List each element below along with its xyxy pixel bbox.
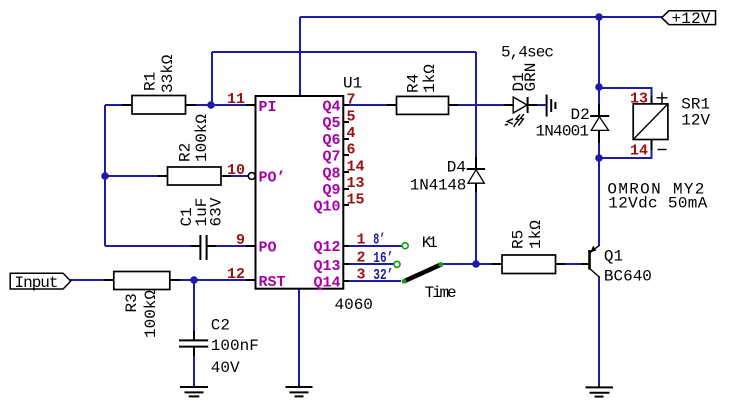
C2 value label bbox=[211, 317, 259, 378]
wire left rail bbox=[104, 105, 106, 246]
svg-text:Q14: Q14 bbox=[313, 274, 340, 291]
R4 value label bbox=[405, 64, 440, 93]
svg-text:13: 13 bbox=[630, 90, 648, 107]
wire Q14 stub bbox=[343, 280, 401, 282]
capacitor C1 bbox=[191, 235, 216, 260]
svg-text:PO: PO bbox=[259, 239, 277, 256]
R3 value label bbox=[123, 290, 160, 338]
svg-text:R3: R3 bbox=[123, 293, 141, 312]
svg-text:Input: Input bbox=[15, 274, 59, 292]
svg-text:Q12: Q12 bbox=[313, 239, 340, 256]
svg-text:6: 6 bbox=[347, 142, 356, 159]
wire R2 row to pin 10 bbox=[105, 175, 248, 177]
svg-text:Q1: Q1 bbox=[604, 248, 623, 266]
svg-text:12V: 12V bbox=[681, 112, 710, 130]
svg-text:100nF: 100nF bbox=[211, 337, 259, 355]
svg-text:4: 4 bbox=[347, 125, 356, 142]
ground under Q1 bbox=[586, 387, 614, 396]
svg-text:GRN: GRN bbox=[522, 63, 540, 92]
wire C2 top bbox=[193, 280, 195, 340]
R5 value label bbox=[510, 220, 546, 249]
svg-text:PO’: PO’ bbox=[259, 170, 286, 187]
junction node RST/C2 bbox=[190, 276, 198, 284]
svg-text:1kΩ: 1kΩ bbox=[527, 220, 545, 249]
relay coil SR1 bbox=[633, 93, 668, 151]
diode D4 bbox=[467, 157, 485, 192]
wire Q12 stub bbox=[343, 245, 402, 247]
svg-text:R1: R1 bbox=[142, 72, 160, 91]
svg-text:Q9: Q9 bbox=[322, 182, 340, 199]
wire IC top to rail bbox=[299, 17, 301, 96]
wire relay top pin bbox=[651, 88, 653, 104]
wire C1 to pin 9 bbox=[207, 245, 256, 247]
wire D4 top drop bbox=[475, 52, 477, 160]
wire relay top horizontal bbox=[599, 87, 653, 89]
wire PI net upper rail bbox=[212, 51, 476, 53]
wire Input row to RST bbox=[70, 279, 256, 281]
junction node relay bottom bbox=[595, 154, 603, 162]
wire relay bottom pin bbox=[651, 139, 653, 158]
svg-text:100kΩ: 100kΩ bbox=[193, 114, 211, 162]
svg-text:Q6: Q6 bbox=[322, 132, 340, 149]
svg-text:D4: D4 bbox=[447, 159, 466, 177]
svg-text:16’: 16’ bbox=[373, 250, 393, 267]
LED D1 bbox=[504, 97, 537, 127]
Input port flag bbox=[10, 273, 70, 292]
D1 value label bbox=[510, 63, 540, 92]
resistor R3 bbox=[104, 272, 180, 290]
wire IC ground drop bbox=[298, 289, 300, 387]
junction node pin11 bbox=[207, 101, 215, 109]
junction node relay top bbox=[595, 83, 603, 91]
svg-text:+12V: +12V bbox=[672, 10, 711, 28]
svg-text:5,4sec: 5,4sec bbox=[501, 44, 554, 62]
resistor R5 bbox=[492, 255, 565, 274]
junction node top rail bbox=[595, 13, 603, 21]
wire PI net left drop bbox=[211, 52, 213, 105]
capacitor C2 bbox=[179, 331, 208, 356]
svg-text:8’: 8’ bbox=[373, 232, 385, 249]
IC U1 4060 bbox=[246, 96, 349, 289]
svg-text:Q7: Q7 bbox=[322, 149, 340, 166]
svg-text:R2: R2 bbox=[177, 143, 195, 162]
svg-text:RST: RST bbox=[259, 274, 286, 291]
svg-text:Time: Time bbox=[425, 284, 457, 302]
svg-text:12Vdc 50mA: 12Vdc 50mA bbox=[608, 195, 707, 213]
svg-text:40V: 40V bbox=[211, 359, 240, 377]
svg-text:Q10: Q10 bbox=[313, 199, 340, 216]
diode D2 bbox=[590, 104, 609, 143]
svg-text:100kΩ: 100kΩ bbox=[142, 290, 160, 338]
svg-text:2: 2 bbox=[357, 250, 366, 267]
svg-text:BC640: BC640 bbox=[604, 268, 652, 286]
svg-text:U1: U1 bbox=[343, 75, 362, 93]
wire +12V top rail bbox=[300, 16, 662, 18]
transistor Q1 bbox=[581, 245, 599, 277]
svg-text:11: 11 bbox=[227, 91, 245, 108]
resistor R4 bbox=[387, 96, 458, 114]
wire R1 row bbox=[105, 104, 256, 106]
svg-text:13: 13 bbox=[347, 175, 365, 192]
wire +12V drop to D2 bbox=[598, 17, 600, 106]
svg-text:1N4148: 1N4148 bbox=[410, 177, 467, 195]
svg-text:12: 12 bbox=[227, 266, 245, 283]
svg-text:R4: R4 bbox=[405, 74, 423, 93]
svg-text:1: 1 bbox=[357, 232, 366, 249]
svg-text:10: 10 bbox=[227, 162, 245, 179]
ground under C2 bbox=[180, 387, 208, 396]
R2 value label bbox=[177, 114, 212, 162]
svg-text:Q4: Q4 bbox=[322, 99, 340, 116]
wire K1 common to R5 to Q1 base bbox=[441, 263, 589, 265]
C1 value label bbox=[178, 197, 226, 226]
svg-text:K1: K1 bbox=[422, 234, 438, 252]
+12V power flag bbox=[662, 10, 716, 28]
svg-text:PI: PI bbox=[259, 99, 277, 116]
svg-text:5: 5 bbox=[347, 109, 356, 126]
svg-text:7: 7 bbox=[347, 92, 356, 109]
wire Q1 collector to ground bbox=[598, 276, 600, 387]
resistor R2 bbox=[158, 167, 231, 185]
wire relay bottom horizontal bbox=[599, 157, 653, 159]
svg-text:Q5: Q5 bbox=[322, 115, 340, 132]
wire D4 bottom drop bbox=[475, 183, 477, 264]
svg-text:3: 3 bbox=[357, 267, 366, 284]
svg-text:Q13: Q13 bbox=[313, 258, 340, 275]
svg-text:33kΩ: 33kΩ bbox=[159, 54, 177, 93]
svg-text:32’: 32’ bbox=[373, 267, 393, 284]
svg-text:R5: R5 bbox=[510, 230, 528, 249]
svg-text:4060: 4060 bbox=[335, 296, 373, 314]
wire LED cathode to ground bbox=[528, 104, 546, 106]
wire Q4 to R4 to LED bbox=[343, 104, 513, 106]
resistor R1 bbox=[122, 96, 196, 115]
svg-text:Q8: Q8 bbox=[322, 165, 340, 182]
svg-text:14: 14 bbox=[347, 159, 365, 176]
ground under IC bbox=[286, 387, 313, 396]
svg-text:1kΩ: 1kΩ bbox=[421, 64, 439, 93]
svg-text:63V: 63V bbox=[208, 197, 226, 226]
svg-text:14: 14 bbox=[630, 143, 648, 160]
wire C2 to ground bbox=[193, 356, 195, 387]
wire C1 row left bbox=[105, 245, 200, 247]
svg-text:D2: D2 bbox=[571, 106, 590, 124]
junction node K1 common bbox=[472, 260, 480, 268]
svg-text:C2: C2 bbox=[211, 317, 230, 335]
svg-text:1N4001: 1N4001 bbox=[536, 123, 590, 141]
junction node R2 left bbox=[101, 172, 109, 180]
svg-text:15: 15 bbox=[347, 192, 365, 209]
wire Q13 stub bbox=[343, 263, 394, 265]
ground after LED (sideways) bbox=[547, 95, 556, 117]
wire D2 to Q1 emitter bbox=[598, 141, 600, 246]
svg-text:9: 9 bbox=[236, 232, 245, 249]
switch K1 bbox=[394, 243, 443, 284]
R1 value label bbox=[142, 54, 178, 93]
